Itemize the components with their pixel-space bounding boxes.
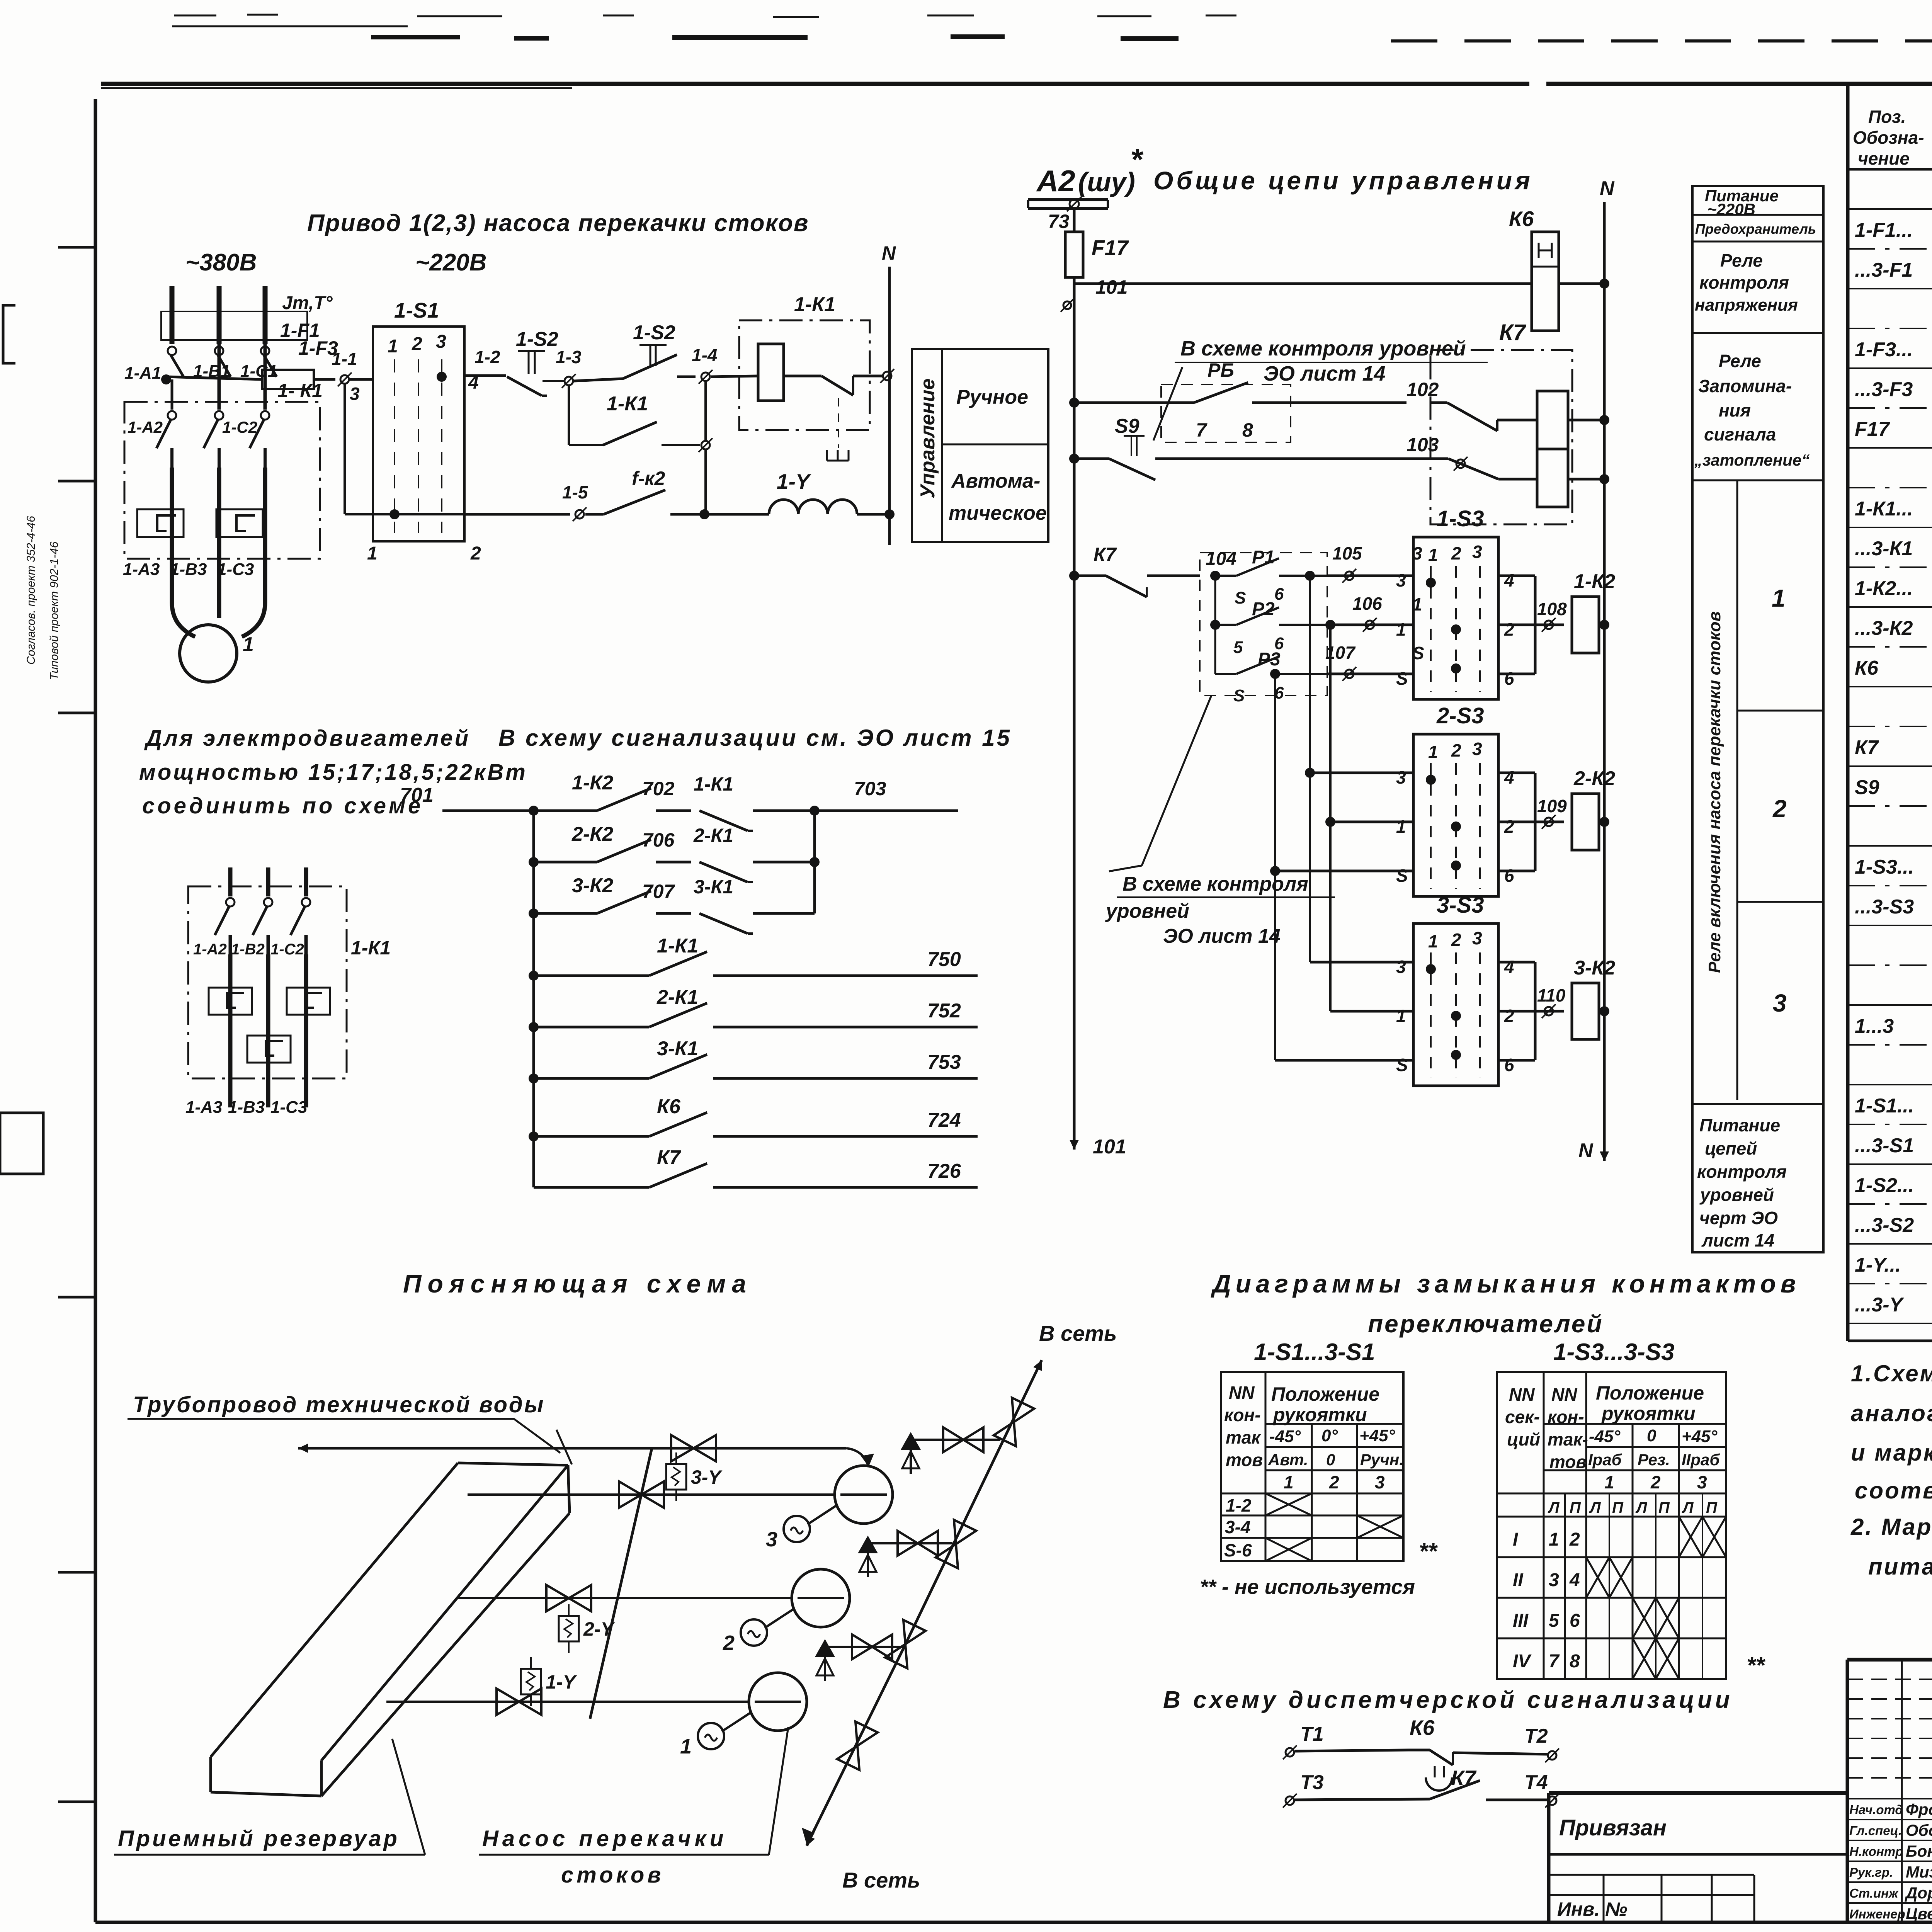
svg-text:Рез.: Рез. — [1638, 1451, 1670, 1469]
svg-text:В схеме контроля: В схеме контроля — [1122, 873, 1308, 895]
svg-text:Автома-: Автома- — [951, 470, 1040, 492]
svg-text:2: 2 — [412, 334, 422, 354]
svg-text:...3-F3: ...3-F3 — [1855, 378, 1913, 401]
svg-text:1-S2: 1-S2 — [633, 321, 675, 344]
svg-text:3: 3 — [1472, 739, 1482, 759]
svg-text:N: N — [1578, 1139, 1594, 1162]
svg-text:3: 3 — [766, 1528, 777, 1551]
svg-text:Л: Л — [1589, 1499, 1601, 1516]
svg-text:ций: ций — [1507, 1429, 1540, 1449]
svg-text:1: 1 — [1604, 1472, 1614, 1492]
svg-text:К6: К6 — [1410, 1716, 1435, 1740]
svg-text:Обозная: Обозная — [1906, 1821, 1932, 1839]
svg-text:П: П — [1706, 1499, 1718, 1516]
svg-text:Л: Л — [1548, 1499, 1560, 1516]
svg-text:NN: NN — [1551, 1384, 1577, 1405]
svg-text:106: 106 — [1352, 594, 1382, 614]
svg-text:Л: Л — [1635, 1499, 1648, 1516]
svg-text:3-К1: 3-К1 — [657, 1037, 698, 1060]
svg-text:0°: 0° — [1321, 1426, 1338, 1445]
svg-text:Согласов. проект 352-4-46: Согласов. проект 352-4-46 — [25, 516, 37, 665]
svg-text:N: N — [882, 242, 896, 264]
svg-text:2: 2 — [1451, 543, 1461, 563]
svg-text:1: 1 — [1549, 1529, 1559, 1550]
svg-text:8: 8 — [1570, 1651, 1580, 1672]
svg-text:1-Y...: 1-Y... — [1855, 1254, 1901, 1276]
svg-text:6: 6 — [1504, 668, 1514, 689]
svg-text:Поясняющая схема: Поясняющая схема — [403, 1269, 752, 1298]
svg-text:К7: К7 — [1499, 320, 1527, 345]
svg-text:Трубопровод технической воды: Трубопровод технической воды — [133, 1392, 545, 1417]
svg-text:Управление: Управление — [917, 379, 939, 498]
svg-text:N: N — [1600, 177, 1615, 200]
svg-text:1-В2: 1-В2 — [231, 941, 265, 958]
svg-text:Инженер: Инженер — [1849, 1907, 1905, 1921]
svg-text:рукоятки: рукоятки — [1272, 1404, 1367, 1425]
svg-text:S: S — [1396, 1055, 1408, 1075]
svg-text:1-А2: 1-А2 — [193, 941, 227, 958]
svg-text:„затопление“: „затопление“ — [1694, 451, 1810, 469]
svg-text:8: 8 — [1242, 419, 1253, 441]
svg-text:Рук.гр.: Рук.гр. — [1849, 1865, 1893, 1879]
svg-text:...3-К1: ...3-К1 — [1855, 537, 1913, 560]
svg-text:уровней: уровней — [1105, 900, 1189, 922]
svg-text:105: 105 — [1332, 543, 1362, 563]
svg-text:3-4: 3-4 — [1225, 1517, 1250, 1537]
svg-text:тическое: тическое — [949, 502, 1047, 524]
svg-text:тов: тов — [1226, 1450, 1263, 1470]
svg-text:*: * — [1130, 142, 1144, 177]
svg-text:110: 110 — [1537, 985, 1566, 1005]
svg-text:1-Y: 1-Y — [777, 469, 811, 493]
svg-text:1: 1 — [1428, 545, 1438, 565]
svg-text:F17: F17 — [1855, 418, 1890, 440]
svg-text:Т2: Т2 — [1524, 1725, 1548, 1747]
svg-text:черт ЭО: черт ЭО — [1699, 1208, 1778, 1228]
svg-text:1: 1 — [1396, 1006, 1406, 1026]
svg-text:Фролов: Фролов — [1906, 1800, 1932, 1818]
svg-text:Ручное: Ручное — [956, 386, 1028, 408]
svg-text:Гл.спец.: Гл.спец. — [1849, 1823, 1902, 1838]
svg-text:1-В3: 1-В3 — [228, 1098, 265, 1117]
svg-text:103: 103 — [1406, 434, 1439, 456]
svg-text:1-В3: 1-В3 — [170, 560, 207, 579]
svg-text:Т4: Т4 — [1524, 1771, 1548, 1794]
svg-text:1-2: 1-2 — [1226, 1495, 1252, 1515]
svg-text:~220В: ~220В — [415, 249, 486, 276]
svg-text:6: 6 — [1504, 866, 1514, 886]
svg-text:0: 0 — [1647, 1426, 1656, 1445]
svg-text:703: 703 — [854, 778, 886, 799]
svg-text:**: ** — [1747, 1652, 1765, 1678]
svg-text:2: 2 — [1329, 1472, 1339, 1492]
svg-text:1: 1 — [367, 543, 378, 564]
svg-text:1: 1 — [1284, 1472, 1294, 1492]
svg-text:1-А2: 1-А2 — [128, 418, 163, 436]
svg-text:6: 6 — [1570, 1611, 1580, 1631]
svg-text:2: 2 — [470, 543, 481, 564]
svg-text:К6: К6 — [1509, 207, 1534, 231]
svg-text:1-S1...: 1-S1... — [1855, 1095, 1914, 1117]
svg-text:109: 109 — [1537, 796, 1567, 816]
svg-text:Поз.: Поз. — [1868, 107, 1906, 127]
svg-text:К6: К6 — [657, 1095, 681, 1118]
svg-text:6: 6 — [1274, 585, 1284, 604]
svg-text:3: 3 — [1549, 1570, 1559, 1590]
svg-text:4: 4 — [1504, 957, 1514, 977]
svg-text:Типовой проект 902-1-46: Типовой проект 902-1-46 — [48, 541, 61, 680]
svg-text:1-С3: 1-С3 — [217, 560, 254, 579]
svg-text:1.Схема приведена для приво: 1.Схема приведена для привода 1. Для при… — [1851, 1361, 1932, 1386]
svg-text:2-К1: 2-К1 — [656, 986, 698, 1009]
svg-text:1: 1 — [1772, 584, 1786, 612]
svg-text:1-4: 1-4 — [692, 345, 717, 365]
svg-text:2: 2 — [1504, 619, 1514, 639]
svg-text:чение: чение — [1858, 148, 1910, 168]
svg-text:Предохранитель: Предохранитель — [1695, 221, 1816, 237]
svg-text:2: 2 — [1650, 1472, 1661, 1492]
svg-text:3: 3 — [1697, 1472, 1707, 1492]
svg-text:контроля: контроля — [1697, 1162, 1787, 1182]
svg-text:3: 3 — [350, 384, 360, 404]
svg-text:Мизяк: Мизяк — [1906, 1863, 1932, 1881]
svg-text:1- К1: 1- К1 — [277, 380, 323, 401]
svg-text:...3-S3: ...3-S3 — [1855, 896, 1914, 918]
svg-text:так-: так- — [1548, 1429, 1588, 1449]
svg-text:1-S2: 1-S2 — [516, 328, 558, 350]
svg-text:1-2: 1-2 — [474, 347, 500, 367]
svg-text:2. Маркировка в скобках *пр: 2. Маркировка в скобках *приведена для в… — [1850, 1514, 1932, 1540]
svg-text:лист 14: лист 14 — [1701, 1230, 1774, 1250]
svg-text:1-К1: 1-К1 — [351, 937, 391, 959]
svg-text:...3-Y: ...3-Y — [1855, 1294, 1905, 1316]
svg-text:Инв. №: Инв. № — [1557, 1898, 1627, 1920]
svg-text:Нач.отд: Нач.отд — [1849, 1803, 1903, 1817]
svg-text:~220В: ~220В — [1707, 200, 1755, 218]
svg-text:1-К2: 1-К2 — [1574, 570, 1615, 593]
svg-text:Реле: Реле — [1720, 250, 1763, 270]
svg-text:3: 3 — [436, 332, 446, 352]
svg-text:707: 707 — [642, 881, 675, 902]
svg-text:3: 3 — [1472, 542, 1482, 562]
svg-text:2: 2 — [1451, 930, 1461, 950]
svg-text:S: S — [1235, 588, 1246, 607]
svg-text:переключателей: переключателей — [1368, 1310, 1604, 1338]
svg-text:ЭО лист 14: ЭО лист 14 — [1163, 925, 1281, 947]
svg-text:NN: NN — [1509, 1384, 1535, 1405]
svg-text:сек-: сек- — [1505, 1407, 1540, 1427]
svg-text:753: 753 — [927, 1051, 961, 1073]
svg-text:Общие цепи управления: Общие цепи управления — [1153, 166, 1533, 195]
svg-text:2: 2 — [723, 1631, 735, 1655]
svg-text:NN: NN — [1229, 1383, 1255, 1403]
svg-text:1-К1: 1-К1 — [794, 293, 835, 316]
svg-text:S: S — [1396, 866, 1408, 886]
svg-text:1: 1 — [1396, 619, 1406, 639]
svg-text:Привод 1(2,3) насоса перекачки: Привод 1(2,3) насоса перекачки стоков — [307, 210, 809, 236]
svg-text:1-S2...: 1-S2... — [1855, 1174, 1914, 1197]
svg-text:(шу): (шу) — [1078, 167, 1135, 197]
svg-text:2: 2 — [1504, 816, 1514, 837]
svg-text:К7: К7 — [657, 1146, 681, 1169]
svg-text:4: 4 — [1569, 1570, 1580, 1590]
svg-text:В схему диспетчерской сигнал: В схему диспетчерской сигнализации — [1163, 1687, 1733, 1713]
svg-text:Авт.: Авт. — [1268, 1451, 1308, 1469]
svg-text:4: 4 — [1504, 767, 1514, 787]
svg-text:702: 702 — [642, 778, 675, 799]
svg-text:П: П — [1658, 1499, 1670, 1516]
svg-text:РБ: РБ — [1207, 359, 1234, 381]
svg-text:Реле включения насоса перекачк: Реле включения насоса перекачки стоков — [1705, 611, 1724, 973]
svg-text:3: 3 — [1375, 1472, 1385, 1492]
svg-text:Т1: Т1 — [1300, 1723, 1324, 1745]
svg-text:706: 706 — [642, 829, 675, 851]
svg-text:К7: К7 — [1855, 736, 1879, 759]
svg-text:104: 104 — [1206, 549, 1236, 569]
svg-text:1-К1: 1-К1 — [607, 393, 648, 415]
svg-text:1-С2: 1-С2 — [222, 418, 257, 436]
svg-text:соответственно меняется на: соответственно меняется на 2 и 3. — [1855, 1478, 1932, 1503]
svg-text:В сеть: В сеть — [1039, 1321, 1117, 1345]
svg-text:Для электродвигателей: Для электродвигателей — [144, 726, 470, 751]
svg-text:Л: Л — [1682, 1499, 1694, 1516]
svg-text:Т3: Т3 — [1300, 1771, 1324, 1794]
svg-text:II: II — [1513, 1570, 1524, 1590]
svg-text:1-5: 1-5 — [562, 482, 588, 502]
svg-text:уровней: уровней — [1699, 1185, 1774, 1205]
svg-text:3-Y: 3-Y — [691, 1466, 723, 1488]
svg-text:Iраб: Iраб — [1588, 1451, 1622, 1469]
svg-text:мощностью 15;17;18,5;22кВт: мощностью 15;17;18,5;22кВт — [139, 760, 527, 785]
svg-text:724: 724 — [927, 1109, 961, 1131]
svg-text:Ст.инж: Ст.инж — [1849, 1886, 1899, 1900]
svg-text:S9: S9 — [1115, 415, 1139, 437]
svg-text:так: так — [1226, 1427, 1261, 1447]
svg-text:**: ** — [1419, 1538, 1438, 1564]
svg-text:1-S1...3-S1: 1-S1...3-S1 — [1254, 1339, 1375, 1366]
svg-text:питания по двум вводам: питания по двум вводам — [1868, 1554, 1932, 1580]
svg-text:...3-F1: ...3-F1 — [1855, 259, 1913, 281]
svg-text:Ручн.: Ручн. — [1360, 1451, 1404, 1469]
svg-text:101: 101 — [1095, 276, 1128, 298]
svg-text:3: 3 — [1396, 957, 1406, 977]
svg-text:...3-S2: ...3-S2 — [1855, 1214, 1914, 1236]
svg-text:701: 701 — [400, 784, 434, 806]
svg-text:Приемный резервуар: Приемный резервуар — [118, 1826, 400, 1851]
svg-text:5: 5 — [1233, 638, 1243, 657]
svg-text:726: 726 — [927, 1160, 961, 1182]
svg-text:-45°: -45° — [1589, 1427, 1621, 1446]
svg-text:1: 1 — [680, 1735, 692, 1758]
svg-text:3-S3: 3-S3 — [1437, 893, 1484, 918]
svg-text:~380В: ~380В — [185, 249, 257, 276]
svg-text:1: 1 — [1428, 742, 1438, 762]
svg-text:1-С3: 1-С3 — [270, 1098, 307, 1117]
svg-text:...3-S1: ...3-S1 — [1855, 1134, 1914, 1157]
svg-text:7: 7 — [1549, 1651, 1560, 1672]
svg-text:Н.контр: Н.контр — [1849, 1844, 1903, 1859]
svg-text:3-К2: 3-К2 — [572, 874, 613, 897]
svg-text:и маркировки цепей, обознача: и маркировки цепей, обозначающая номер п… — [1851, 1440, 1932, 1466]
svg-text:...3-К2: ...3-К2 — [1855, 617, 1913, 639]
svg-text:752: 752 — [927, 1000, 961, 1022]
svg-text:1-Y: 1-Y — [546, 1671, 577, 1693]
svg-text:Положение: Положение — [1596, 1382, 1704, 1404]
svg-text:Привязан: Привязан — [1559, 1815, 1667, 1840]
svg-text:1-А3: 1-А3 — [123, 560, 160, 579]
svg-text:1: 1 — [388, 336, 398, 357]
svg-text:Бондарь: Бондарь — [1906, 1842, 1932, 1860]
svg-text:2: 2 — [1504, 1006, 1514, 1026]
svg-text:1: 1 — [1428, 931, 1438, 951]
svg-text:+45°: +45° — [1359, 1426, 1395, 1445]
svg-text:контроля: контроля — [1699, 272, 1789, 293]
svg-text:108: 108 — [1537, 599, 1567, 619]
svg-text:соединить по схеме: соединить по схеме — [142, 793, 423, 818]
svg-text:3: 3 — [1773, 989, 1787, 1017]
svg-text:1-А3: 1-А3 — [185, 1098, 222, 1117]
svg-text:Положение: Положение — [1271, 1383, 1379, 1405]
svg-text:1...3: 1...3 — [1855, 1015, 1894, 1037]
svg-text:2-S3: 2-S3 — [1436, 703, 1484, 728]
svg-text:III: III — [1513, 1611, 1529, 1631]
svg-text:В схеме контроля уровней: В схеме контроля уровней — [1180, 337, 1466, 360]
svg-text:В сеть: В сеть — [842, 1868, 920, 1892]
svg-text:тов: тов — [1549, 1452, 1587, 1472]
svg-text:1-F1...: 1-F1... — [1855, 219, 1913, 241]
svg-text:рукоятки: рукоятки — [1601, 1403, 1696, 1424]
svg-text:102: 102 — [1406, 379, 1439, 400]
svg-text:цепей: цепей — [1705, 1138, 1757, 1158]
svg-text:аналогичны. Цифра 1 в левой: аналогичны. Цифра 1 в левой части обозна… — [1851, 1400, 1932, 1426]
svg-text:2-К2: 2-К2 — [1573, 767, 1615, 790]
svg-text:2-К2: 2-К2 — [571, 823, 613, 845]
svg-text:1: 1 — [243, 633, 254, 656]
svg-text:1-S1: 1-S1 — [394, 298, 439, 322]
svg-text:4: 4 — [1504, 570, 1514, 590]
svg-text:1-1: 1-1 — [332, 349, 357, 369]
svg-text:В схему сигнализации см. ЭО: В схему сигнализации см. ЭО лист 15 — [498, 725, 1012, 751]
svg-text:сигнала: сигнала — [1704, 424, 1776, 444]
svg-text:А2: А2 — [1036, 164, 1075, 198]
svg-text:1-S3...3-S3: 1-S3...3-S3 — [1553, 1339, 1675, 1366]
svg-text:Насос перекачки: Насос перекачки — [482, 1826, 727, 1851]
svg-text:Запомина-: Запомина- — [1698, 376, 1792, 396]
svg-text:S: S — [1233, 686, 1245, 705]
svg-text:1-К1: 1-К1 — [657, 935, 698, 957]
svg-text:Цветочкина: Цветочкина — [1906, 1905, 1932, 1923]
svg-text:+45°: +45° — [1682, 1427, 1718, 1446]
svg-text:1-3: 1-3 — [556, 347, 582, 367]
svg-text:-45°: -45° — [1269, 1427, 1301, 1446]
svg-text:3-К2: 3-К2 — [1574, 957, 1615, 979]
svg-text:IIраб: IIраб — [1682, 1451, 1720, 1469]
svg-text:стоков: стоков — [561, 1862, 664, 1888]
svg-text:1-К2: 1-К2 — [572, 772, 613, 794]
svg-text:П: П — [1612, 1499, 1624, 1516]
svg-text:кон-: кон- — [1224, 1405, 1261, 1425]
svg-text:** - не используется: ** - не используется — [1200, 1575, 1415, 1599]
svg-text:Питание: Питание — [1699, 1115, 1780, 1135]
svg-text:1-С2: 1-С2 — [270, 941, 304, 958]
svg-text:6: 6 — [1504, 1055, 1514, 1075]
svg-text:750: 750 — [927, 948, 961, 971]
svg-text:Реле: Реле — [1719, 351, 1761, 371]
svg-text:IV: IV — [1513, 1651, 1532, 1672]
svg-text:0: 0 — [1326, 1451, 1335, 1469]
svg-text:7: 7 — [1196, 419, 1207, 441]
svg-text:S-6: S-6 — [1224, 1540, 1252, 1560]
svg-text:К6: К6 — [1855, 657, 1879, 679]
svg-text:1-А1: 1-А1 — [124, 364, 161, 383]
svg-text:101: 101 — [1093, 1136, 1126, 1158]
svg-text:73: 73 — [1048, 211, 1070, 232]
svg-text:Jт,Т°: Jт,Т° — [282, 293, 333, 313]
svg-text:напряжения: напряжения — [1695, 296, 1798, 315]
svg-text:1: 1 — [1396, 816, 1406, 837]
svg-text:К7: К7 — [1094, 544, 1117, 565]
svg-text:2: 2 — [1772, 795, 1787, 823]
svg-text:ния: ния — [1719, 400, 1751, 420]
svg-text:1-К2...: 1-К2... — [1855, 577, 1913, 600]
svg-text:1-К1...: 1-К1... — [1855, 498, 1913, 520]
svg-text:П: П — [1570, 1499, 1581, 1516]
svg-text:5: 5 — [1549, 1611, 1560, 1631]
svg-text:Диаграммы замыкания контакто: Диаграммы замыкания контактов — [1211, 1269, 1801, 1298]
svg-text:ЭО лист 14: ЭО лист 14 — [1264, 362, 1386, 385]
svg-text:кон-: кон- — [1548, 1407, 1584, 1427]
svg-text:S: S — [1396, 668, 1408, 689]
svg-text:1-S3: 1-S3 — [1437, 506, 1484, 531]
svg-text:3: 3 — [1472, 928, 1482, 948]
svg-text:2-К1: 2-К1 — [693, 825, 733, 846]
svg-text:1-S3...: 1-S3... — [1855, 856, 1914, 878]
svg-text:Дорофеев: Дорофеев — [1905, 1884, 1932, 1902]
svg-text:3: 3 — [1396, 570, 1406, 590]
svg-text:3: 3 — [1396, 767, 1406, 787]
svg-text:I: I — [1513, 1529, 1519, 1550]
svg-text:1-К1: 1-К1 — [694, 773, 733, 795]
svg-text:2: 2 — [1569, 1529, 1580, 1550]
svg-text:2: 2 — [1451, 740, 1461, 760]
svg-text:S9: S9 — [1855, 776, 1879, 799]
svg-text:1-F3...: 1-F3... — [1855, 338, 1913, 361]
svg-text:f-к2: f-к2 — [632, 468, 665, 489]
svg-text:F17: F17 — [1092, 236, 1129, 260]
svg-text:3-К1: 3-К1 — [694, 876, 733, 898]
svg-text:Обозна-: Обозна- — [1853, 128, 1924, 148]
